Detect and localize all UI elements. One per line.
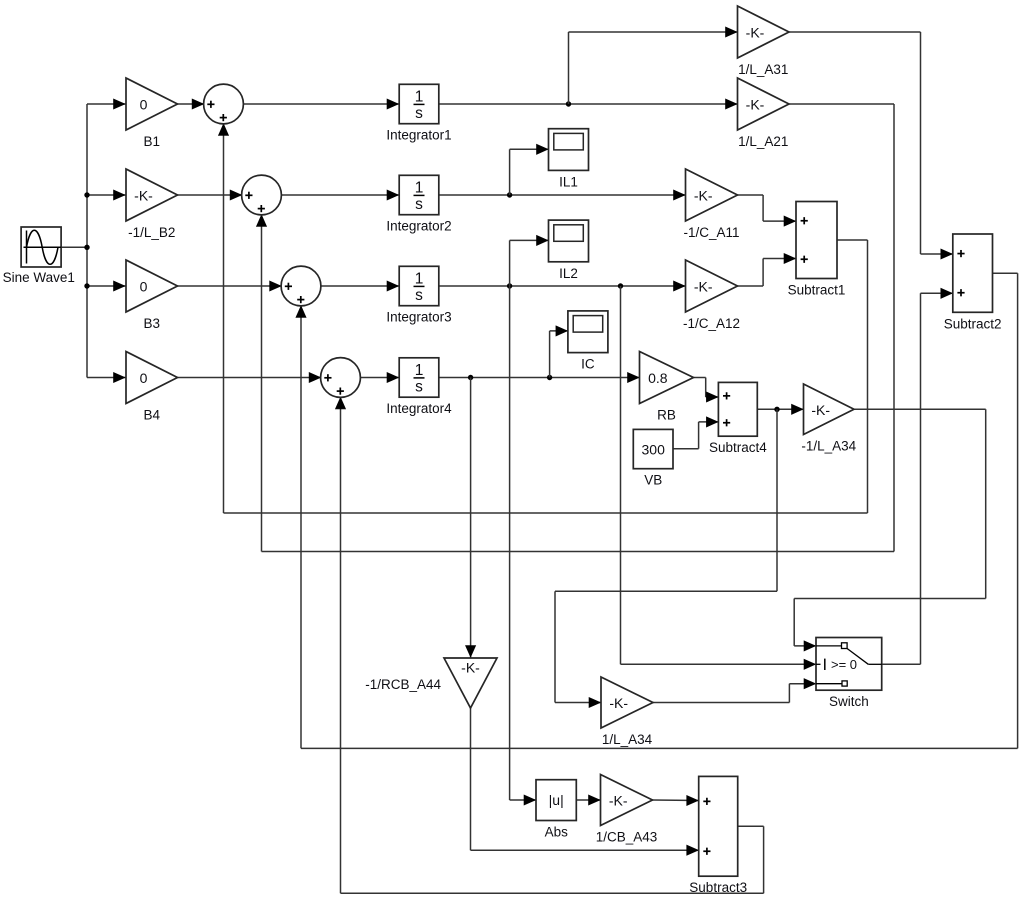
svg-text:-K-: -K- bbox=[134, 188, 153, 204]
svg-text:-K-: -K- bbox=[461, 660, 480, 676]
svg-text:-K-: -K- bbox=[609, 695, 628, 711]
svg-text:Abs: Abs bbox=[545, 825, 569, 840]
svg-text:Switch: Switch bbox=[829, 694, 869, 709]
svg-text:1/L_A21: 1/L_A21 bbox=[738, 134, 788, 149]
svg-text:Integrator4: Integrator4 bbox=[386, 401, 452, 416]
svg-text:1: 1 bbox=[415, 179, 424, 196]
svg-text:-1/C_A11: -1/C_A11 bbox=[683, 225, 739, 240]
svg-text:|u|: |u| bbox=[549, 792, 564, 808]
svg-text:1/L_A34: 1/L_A34 bbox=[602, 732, 653, 747]
svg-text:-1/L_A34: -1/L_A34 bbox=[801, 439, 856, 454]
svg-text:B4: B4 bbox=[143, 408, 160, 423]
svg-text:-1/RCB_A44: -1/RCB_A44 bbox=[365, 677, 441, 692]
svg-text:0: 0 bbox=[140, 97, 148, 113]
svg-text:0: 0 bbox=[140, 370, 148, 386]
svg-text:IC: IC bbox=[581, 357, 595, 372]
svg-text:IL1: IL1 bbox=[559, 174, 578, 189]
svg-text:1: 1 bbox=[415, 362, 424, 379]
svg-text:s: s bbox=[415, 105, 423, 122]
svg-text:-K-: -K- bbox=[694, 188, 713, 204]
svg-text:Subtract3: Subtract3 bbox=[689, 880, 747, 895]
svg-text:Sine Wave1: Sine Wave1 bbox=[3, 270, 75, 285]
svg-text:B1: B1 bbox=[143, 134, 160, 149]
svg-text:1: 1 bbox=[415, 270, 424, 287]
svg-text:IL2: IL2 bbox=[559, 266, 578, 281]
svg-text:1: 1 bbox=[415, 88, 424, 105]
svg-text:Integrator2: Integrator2 bbox=[386, 219, 451, 234]
svg-text:-1/L_B2: -1/L_B2 bbox=[128, 225, 175, 240]
svg-text:1/L_A31: 1/L_A31 bbox=[738, 62, 788, 77]
svg-text:s: s bbox=[415, 379, 423, 396]
svg-text:-K-: -K- bbox=[746, 97, 765, 113]
svg-text:300: 300 bbox=[642, 442, 666, 458]
svg-text:>= 0: >= 0 bbox=[831, 657, 857, 672]
svg-text:Integrator3: Integrator3 bbox=[386, 310, 451, 325]
svg-text:-K-: -K- bbox=[694, 279, 713, 295]
svg-text:-K-: -K- bbox=[811, 402, 830, 418]
svg-text:Integrator1: Integrator1 bbox=[386, 128, 451, 143]
svg-text:-K-: -K- bbox=[746, 25, 765, 41]
svg-text:Subtract1: Subtract1 bbox=[788, 283, 846, 298]
svg-text:B3: B3 bbox=[143, 316, 160, 331]
svg-text:-1/C_A12: -1/C_A12 bbox=[683, 316, 740, 331]
svg-text:Subtract4: Subtract4 bbox=[709, 440, 767, 455]
svg-text:RB: RB bbox=[657, 408, 676, 423]
svg-text:1/CB_A43: 1/CB_A43 bbox=[596, 830, 658, 845]
svg-text:-K-: -K- bbox=[609, 793, 628, 809]
svg-text:s: s bbox=[415, 196, 423, 213]
svg-text:0: 0 bbox=[140, 279, 148, 295]
svg-text:0.8: 0.8 bbox=[648, 370, 668, 386]
svg-text:VB: VB bbox=[644, 473, 662, 488]
svg-text:Subtract2: Subtract2 bbox=[944, 316, 1002, 331]
svg-text:s: s bbox=[415, 287, 423, 304]
